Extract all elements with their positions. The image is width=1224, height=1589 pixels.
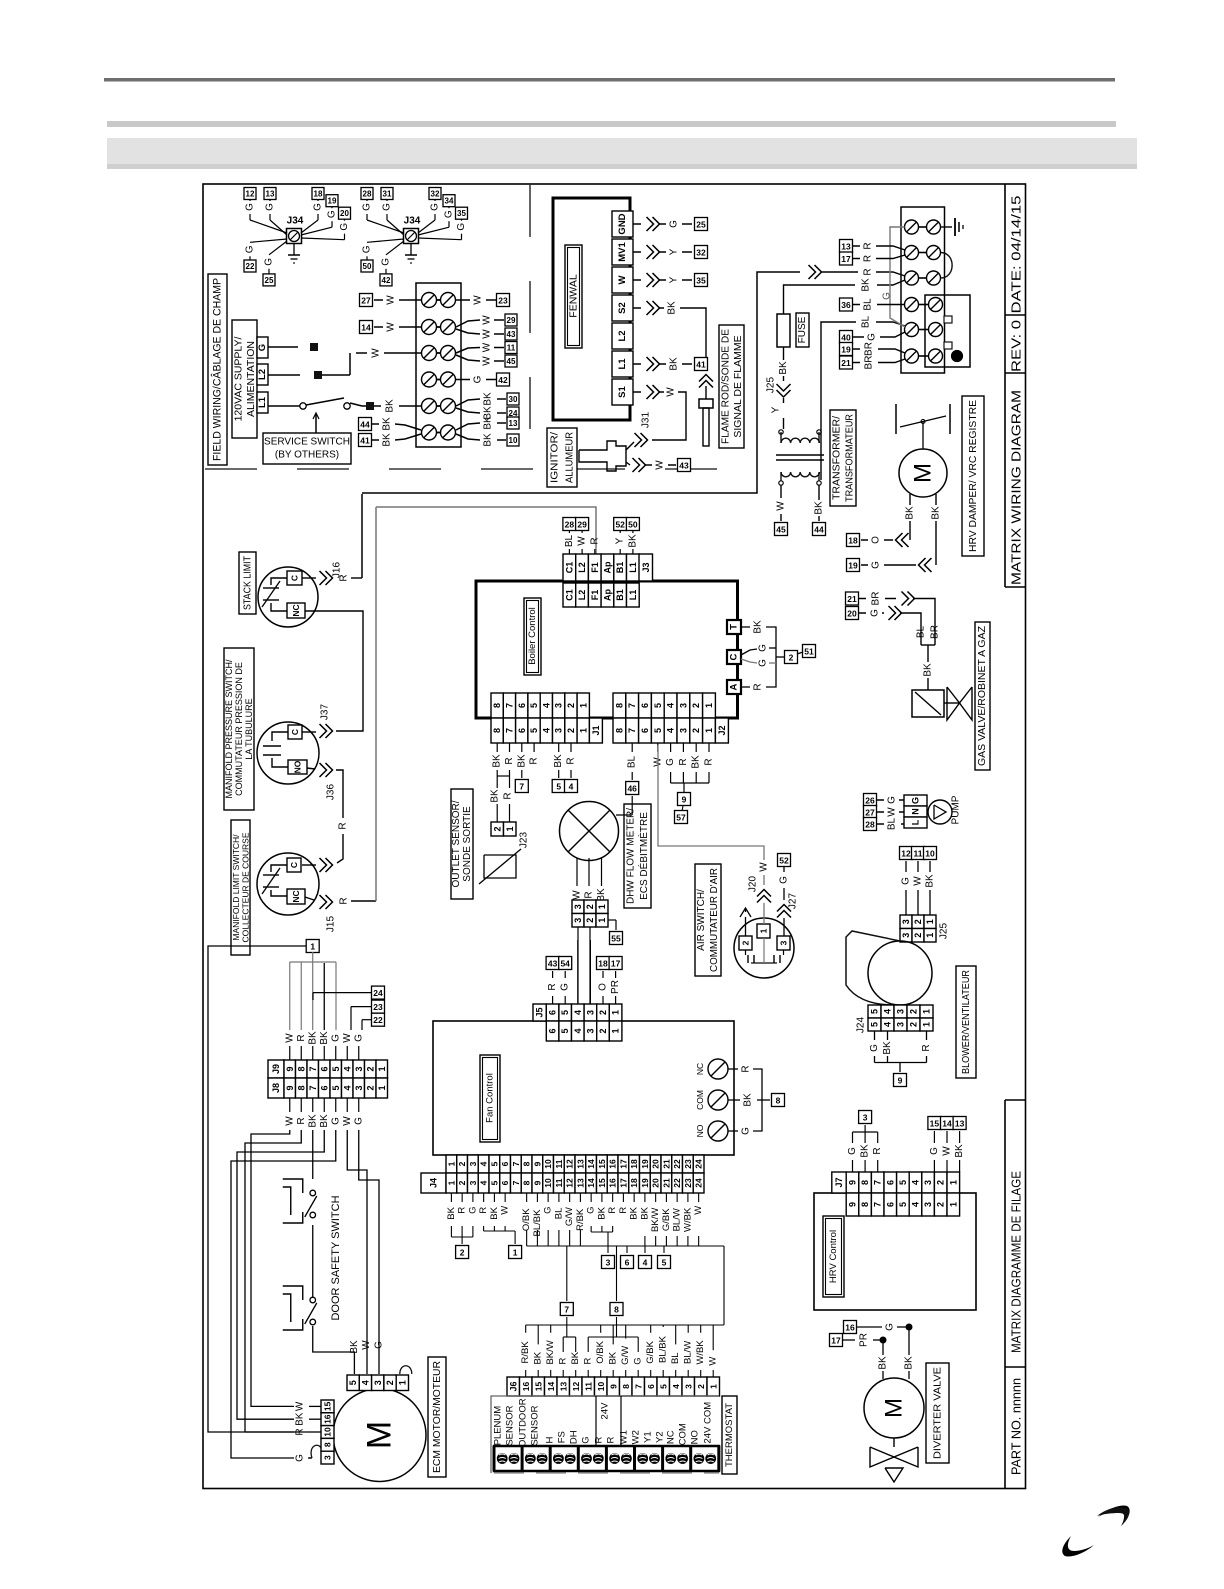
svg-text:BK: BK (905, 506, 916, 520)
svg-text:20: 20 (651, 1159, 661, 1169)
svg-text:BK: BK (382, 417, 393, 431)
svg-text:34: 34 (445, 197, 454, 206)
svg-text:COMMUTATEUR D'AIR: COMMUTATEUR D'AIR (709, 868, 720, 972)
svg-text:W: W (284, 1116, 295, 1126)
svg-text:24: 24 (694, 1178, 704, 1188)
svg-text:Boiler Control: Boiler Control (527, 607, 538, 665)
svg-text:MANIFOLD PRESSURE SWITCH/: MANIFOLD PRESSURE SWITCH/ (224, 659, 234, 799)
svg-text:BK/W: BK/W (545, 1340, 556, 1364)
svg-text:W: W (295, 1401, 306, 1411)
svg-text:G: G (758, 644, 769, 652)
svg-text:1: 1 (597, 918, 607, 923)
svg-text:43: 43 (679, 461, 689, 471)
svg-text:BL: BL (670, 1352, 681, 1364)
svg-text:6: 6 (640, 728, 650, 733)
svg-text:24: 24 (694, 1159, 704, 1169)
svg-text:7: 7 (511, 1161, 521, 1166)
svg-text:5: 5 (560, 1028, 570, 1033)
svg-text:Ap: Ap (602, 561, 612, 573)
svg-text:23: 23 (683, 1159, 693, 1169)
svg-text:3: 3 (585, 1028, 595, 1033)
svg-text:5: 5 (653, 728, 663, 733)
svg-text:G: G (362, 245, 373, 253)
svg-text:R: R (607, 1207, 618, 1214)
svg-text:J36: J36 (326, 784, 337, 801)
svg-text:R: R (921, 1044, 932, 1051)
svg-text:BK: BK (489, 1206, 500, 1219)
svg-text:BK: BK (669, 357, 680, 371)
svg-text:9: 9 (285, 1066, 295, 1071)
svg-text:G: G (901, 877, 912, 885)
svg-text:11: 11 (554, 1178, 564, 1187)
svg-text:5: 5 (662, 1258, 667, 1268)
svg-text:ALLUMEUR: ALLUMEUR (564, 432, 576, 483)
svg-text:19: 19 (640, 1159, 650, 1169)
svg-text:46: 46 (627, 784, 637, 794)
svg-text:19: 19 (640, 1178, 650, 1188)
svg-text:27: 27 (361, 296, 371, 306)
svg-text:3: 3 (896, 1009, 906, 1014)
svg-text:1: 1 (925, 933, 935, 938)
svg-text:F1: F1 (590, 562, 600, 573)
svg-text:BK: BK (295, 1412, 306, 1426)
svg-text:J24: J24 (856, 1017, 867, 1034)
svg-text:R: R (547, 983, 558, 990)
svg-text:7: 7 (519, 782, 524, 792)
svg-text:DATE: 04/14/15: DATE: 04/14/15 (1009, 196, 1024, 314)
svg-text:9: 9 (285, 1085, 295, 1090)
svg-text:BK: BK (570, 1351, 581, 1364)
svg-text:22: 22 (672, 1178, 682, 1188)
svg-text:12: 12 (246, 190, 255, 199)
svg-text:57: 57 (676, 813, 686, 823)
svg-text:35: 35 (696, 276, 706, 286)
svg-text:7: 7 (873, 1180, 883, 1185)
svg-text:L1: L1 (628, 562, 638, 573)
svg-text:BK: BK (627, 534, 638, 548)
svg-text:G: G (444, 210, 455, 218)
svg-text:2: 2 (365, 1085, 375, 1090)
svg-text:32: 32 (431, 190, 440, 199)
svg-text:G: G (867, 333, 878, 341)
svg-text:W: W (361, 1340, 372, 1350)
svg-text:2: 2 (457, 1161, 467, 1166)
svg-text:R: R (529, 757, 540, 764)
svg-text:HRV Control: HRV Control (828, 1230, 839, 1283)
svg-text:G: G (353, 1034, 364, 1042)
svg-text:R: R (503, 792, 514, 799)
svg-text:25: 25 (265, 276, 274, 285)
svg-text:G: G (339, 223, 350, 231)
svg-text:BK: BK (861, 278, 872, 292)
svg-text:5: 5 (870, 1009, 880, 1014)
svg-text:R: R (704, 758, 715, 765)
svg-text:19: 19 (848, 561, 858, 571)
svg-text:DHW FLOW METER/: DHW FLOW METER/ (625, 808, 636, 904)
svg-text:15: 15 (597, 1178, 607, 1188)
svg-text:BK: BK (492, 754, 503, 768)
svg-text:R: R (339, 574, 350, 581)
svg-text:3: 3 (468, 1161, 478, 1166)
svg-text:20: 20 (340, 209, 349, 218)
svg-text:G: G (847, 1147, 858, 1155)
svg-text:BR: BR (871, 592, 882, 606)
svg-text:4: 4 (883, 1009, 893, 1014)
svg-text:19: 19 (841, 345, 851, 355)
svg-text:BK: BK (490, 789, 501, 803)
svg-text:14: 14 (942, 1119, 952, 1129)
svg-text:A: A (729, 683, 740, 690)
svg-text:17: 17 (611, 959, 621, 969)
svg-text:F1: F1 (590, 590, 600, 601)
svg-text:52: 52 (779, 856, 789, 866)
svg-text:15: 15 (597, 1159, 607, 1169)
svg-text:G: G (911, 797, 921, 804)
svg-text:10: 10 (596, 1382, 606, 1392)
svg-text:31: 31 (383, 190, 392, 199)
svg-text:W/BK: W/BK (682, 1207, 693, 1232)
svg-text:5: 5 (898, 1202, 908, 1207)
svg-text:BK: BK (860, 1144, 871, 1158)
svg-text:BL/W: BL/W (672, 1208, 683, 1231)
svg-text:7: 7 (308, 1066, 318, 1071)
svg-text:NC: NC (666, 1430, 677, 1444)
svg-text:J3: J3 (641, 562, 651, 572)
svg-text:7: 7 (633, 1384, 643, 1389)
svg-text:G: G (633, 1357, 644, 1364)
svg-text:51: 51 (804, 647, 814, 657)
svg-text:43: 43 (507, 330, 516, 339)
svg-text:L1: L1 (628, 590, 638, 601)
svg-text:2: 2 (691, 728, 701, 733)
svg-text:J34: J34 (404, 216, 421, 227)
svg-text:NC: NC (695, 1063, 705, 1075)
svg-text:52: 52 (615, 520, 625, 530)
svg-text:R: R (504, 757, 515, 764)
svg-text:O/BK: O/BK (521, 1208, 532, 1231)
svg-text:13: 13 (558, 1382, 568, 1392)
svg-text:Y2: Y2 (655, 1431, 666, 1443)
svg-text:SENSOR: SENSOR (530, 1405, 541, 1445)
svg-text:MATRIX DIAGRAMME DE FILAGE: MATRIX DIAGRAMME DE FILAGE (1009, 1171, 1024, 1353)
svg-text:BK: BK (931, 506, 942, 520)
svg-text:S2: S2 (617, 302, 628, 314)
svg-text:BK: BK (882, 1041, 893, 1055)
svg-text:MV1: MV1 (617, 242, 628, 262)
svg-text:11: 11 (507, 344, 516, 353)
svg-text:8: 8 (776, 1096, 781, 1106)
svg-text:35: 35 (457, 209, 466, 218)
svg-text:1: 1 (377, 1085, 387, 1090)
svg-text:25: 25 (696, 220, 706, 230)
svg-text:BK: BK (925, 874, 936, 888)
svg-text:4: 4 (643, 1258, 648, 1268)
svg-text:4: 4 (541, 728, 551, 733)
svg-text:R: R (863, 255, 874, 262)
svg-text:J31: J31 (641, 412, 652, 429)
svg-text:13: 13 (266, 190, 275, 199)
svg-text:5: 5 (331, 1066, 341, 1071)
svg-text:44: 44 (814, 525, 824, 535)
svg-text:8: 8 (492, 703, 502, 708)
svg-text:42: 42 (382, 276, 391, 285)
svg-text:H: H (545, 1437, 556, 1444)
svg-text:16: 16 (323, 1414, 333, 1424)
svg-text:NO: NO (293, 760, 303, 773)
svg-text:8: 8 (621, 1384, 631, 1389)
svg-text:ALIMENTATION: ALIMENTATION (245, 341, 257, 417)
svg-text:SENSOR: SENSOR (505, 1405, 516, 1445)
svg-text:R: R (863, 242, 874, 249)
svg-text:NO: NO (695, 1124, 705, 1137)
svg-text:1: 1 (397, 1380, 407, 1385)
svg-text:G: G (381, 258, 392, 266)
svg-text:45: 45 (507, 357, 516, 366)
svg-text:2: 2 (585, 918, 595, 923)
svg-text:BK: BK (878, 1356, 889, 1370)
svg-text:15: 15 (323, 1401, 333, 1411)
svg-text:W: W (577, 536, 588, 546)
svg-text:2: 2 (909, 1022, 919, 1027)
svg-text:G: G (741, 1127, 752, 1135)
svg-text:C1: C1 (564, 562, 574, 574)
svg-text:G: G (265, 203, 276, 211)
svg-text:BR: BR (864, 342, 875, 356)
svg-text:23: 23 (498, 296, 508, 306)
svg-text:BK: BK (319, 1031, 330, 1045)
svg-text:G: G (560, 983, 571, 991)
svg-text:1: 1 (513, 1248, 518, 1258)
svg-text:C: C (290, 575, 300, 581)
svg-text:9: 9 (848, 1180, 858, 1185)
svg-text:G: G (669, 220, 680, 228)
svg-text:BK: BK (533, 1351, 544, 1364)
svg-text:W: W (708, 1357, 719, 1366)
svg-text:18: 18 (629, 1178, 639, 1188)
svg-text:4: 4 (666, 728, 676, 733)
svg-text:13: 13 (575, 1159, 585, 1169)
svg-text:2: 2 (909, 1009, 919, 1014)
svg-text:7: 7 (627, 703, 637, 708)
svg-text:5: 5 (331, 1085, 341, 1090)
svg-text:(BY OTHERS): (BY OTHERS) (275, 450, 339, 461)
svg-text:4: 4 (541, 703, 551, 708)
svg-text:G: G (543, 1207, 554, 1214)
svg-text:GAS VALVE/ROBINET A GAZ: GAS VALVE/ROBINET A GAZ (977, 626, 988, 766)
svg-text:54: 54 (560, 959, 570, 969)
svg-text:8: 8 (296, 1085, 306, 1090)
svg-text:J7: J7 (834, 1177, 844, 1187)
svg-text:R: R (338, 822, 349, 829)
svg-text:3: 3 (354, 1066, 364, 1071)
svg-text:4: 4 (883, 1022, 893, 1027)
svg-text:FENWAL: FENWAL (568, 274, 580, 318)
svg-text:1: 1 (611, 1028, 621, 1033)
svg-text:LA TUBULURE: LA TUBULURE (244, 698, 254, 759)
svg-text:BL: BL (553, 1208, 564, 1220)
svg-text:36: 36 (841, 300, 851, 310)
svg-text:J20: J20 (748, 876, 759, 893)
svg-text:BK: BK (516, 754, 527, 768)
svg-text:IGNITOR/: IGNITOR/ (549, 432, 561, 483)
svg-text:G: G (382, 203, 393, 211)
svg-text:1: 1 (948, 1202, 958, 1207)
svg-text:2: 2 (365, 1066, 375, 1071)
svg-text:R: R (296, 1117, 307, 1124)
svg-text:W: W (386, 295, 397, 305)
svg-text:G: G (353, 1117, 364, 1125)
svg-text:W: W (759, 862, 770, 872)
svg-text:R: R (618, 1207, 629, 1214)
svg-text:BR: BR (864, 356, 875, 370)
svg-text:41: 41 (696, 360, 706, 370)
svg-text:28: 28 (363, 190, 372, 199)
svg-text:2: 2 (585, 904, 595, 909)
svg-text:13: 13 (575, 1178, 585, 1188)
svg-text:Y1: Y1 (643, 1431, 654, 1443)
svg-text:R: R (753, 683, 764, 690)
svg-text:ECS DÉBITMÈTRE: ECS DÉBITMÈTRE (637, 812, 650, 900)
svg-text:T: T (729, 624, 740, 630)
svg-text:8: 8 (614, 703, 624, 708)
svg-text:2: 2 (936, 1202, 946, 1207)
svg-text:J8: J8 (271, 1083, 281, 1093)
svg-text:23: 23 (683, 1178, 693, 1188)
svg-text:L2: L2 (577, 562, 587, 573)
svg-text:J5: J5 (535, 1007, 545, 1017)
svg-text:6: 6 (319, 1066, 329, 1071)
svg-text:1: 1 (922, 1022, 932, 1027)
svg-text:2: 2 (492, 826, 502, 831)
svg-text:COM: COM (695, 1090, 705, 1110)
svg-text:G/BK: G/BK (661, 1208, 672, 1231)
svg-text:16: 16 (608, 1159, 618, 1169)
svg-text:OUTDOOR: OUTDOOR (518, 1398, 529, 1447)
svg-text:17: 17 (831, 1336, 841, 1346)
svg-text:BK: BK (667, 301, 678, 315)
svg-text:W: W (500, 1206, 511, 1215)
svg-text:R: R (678, 758, 689, 765)
svg-text:10: 10 (925, 849, 935, 859)
svg-text:5: 5 (489, 1161, 499, 1166)
svg-text:12: 12 (565, 1159, 575, 1169)
svg-text:16: 16 (608, 1178, 618, 1188)
svg-text:BL: BL (564, 534, 575, 547)
svg-text:50: 50 (628, 520, 638, 530)
svg-text:L2: L2 (617, 330, 628, 341)
svg-text:R: R (589, 537, 600, 544)
svg-text:5: 5 (489, 1180, 499, 1185)
svg-text:15: 15 (533, 1382, 543, 1392)
svg-text:6: 6 (640, 703, 650, 708)
svg-text:R: R (558, 1358, 569, 1365)
svg-text:NC: NC (291, 604, 301, 616)
svg-text:L2: L2 (577, 590, 587, 601)
svg-text:26: 26 (865, 796, 875, 806)
svg-text:J2: J2 (717, 725, 727, 735)
svg-text:L2: L2 (257, 369, 268, 380)
svg-text:1: 1 (925, 919, 935, 924)
svg-text:3: 3 (354, 1085, 364, 1090)
svg-text:1: 1 (704, 728, 714, 733)
svg-text:J37: J37 (320, 704, 331, 721)
svg-text:3: 3 (923, 1202, 933, 1207)
svg-text:BK: BK (814, 501, 825, 515)
svg-text:C1: C1 (564, 589, 574, 601)
svg-text:W: W (342, 1116, 353, 1126)
svg-text:29: 29 (577, 520, 587, 530)
svg-text:5: 5 (658, 1384, 668, 1389)
svg-text:3: 3 (779, 940, 789, 945)
svg-text:BK: BK (446, 1206, 457, 1219)
svg-text:J23: J23 (519, 832, 530, 849)
svg-text:6: 6 (517, 728, 527, 733)
svg-text:6: 6 (548, 1010, 558, 1015)
svg-text:BK: BK (385, 399, 396, 413)
svg-text:8: 8 (614, 728, 624, 733)
svg-text:3: 3 (468, 1180, 478, 1185)
svg-text:24V: 24V (600, 1402, 611, 1420)
svg-text:15: 15 (930, 1119, 940, 1129)
svg-text:9: 9 (848, 1202, 858, 1207)
svg-text:R: R (741, 1065, 752, 1072)
svg-text:FS: FS (557, 1431, 568, 1443)
svg-text:14: 14 (546, 1382, 556, 1392)
svg-text:R: R (606, 1437, 617, 1444)
svg-text:BK: BK (753, 620, 764, 634)
svg-text:12: 12 (571, 1382, 581, 1392)
svg-text:PLENUM: PLENUM (493, 1406, 504, 1446)
svg-text:3: 3 (585, 1010, 595, 1015)
svg-text:W: W (482, 356, 493, 366)
svg-text:3: 3 (573, 918, 583, 923)
svg-text:50: 50 (363, 262, 372, 271)
svg-text:21: 21 (661, 1159, 671, 1169)
svg-text:32: 32 (696, 248, 706, 258)
svg-text:O/BK: O/BK (595, 1340, 606, 1363)
svg-text:J4: J4 (429, 1178, 439, 1188)
svg-text:COLLECTEUR DE COURSE: COLLECTEUR DE COURSE (240, 832, 250, 942)
svg-text:G: G (313, 203, 324, 211)
svg-text:10: 10 (509, 436, 518, 445)
svg-text:12: 12 (901, 849, 911, 859)
svg-text:1: 1 (578, 728, 588, 733)
svg-text:2: 2 (936, 1180, 946, 1185)
svg-text:R: R (566, 757, 577, 764)
svg-text:1: 1 (310, 942, 315, 952)
svg-text:G: G (870, 609, 881, 617)
svg-text:6: 6 (885, 1180, 895, 1185)
svg-text:17: 17 (841, 254, 851, 264)
svg-text:G: G (929, 1147, 940, 1155)
svg-text:6: 6 (625, 1258, 630, 1268)
svg-text:7: 7 (511, 1180, 521, 1185)
svg-text:COM: COM (678, 1423, 689, 1445)
svg-text:10: 10 (543, 1159, 553, 1169)
svg-text:R: R (296, 1034, 307, 1041)
svg-text:14: 14 (586, 1178, 596, 1188)
svg-text:G: G (758, 659, 769, 667)
svg-text:Fan Control: Fan Control (485, 1073, 496, 1123)
svg-text:8: 8 (860, 1180, 870, 1185)
svg-text:22: 22 (246, 262, 255, 271)
svg-text:O: O (598, 983, 609, 991)
svg-text:3: 3 (554, 728, 564, 733)
svg-text:1: 1 (759, 928, 769, 933)
svg-text:9: 9 (532, 1161, 542, 1166)
svg-text:3: 3 (323, 1455, 333, 1460)
svg-text:M: M (361, 1421, 399, 1449)
